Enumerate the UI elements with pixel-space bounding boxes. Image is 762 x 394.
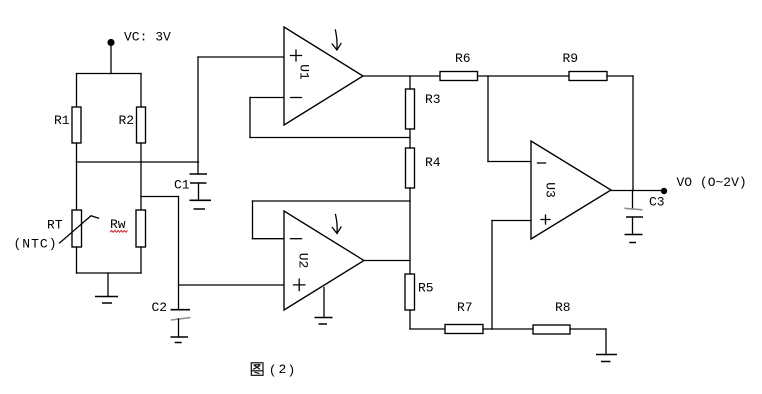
resistor R8: [533, 325, 570, 334]
wire feedback corner vertical: [632, 76, 634, 191]
ground bridge bars: [95, 297, 118, 304]
svg-text:C1: C1: [174, 178, 190, 193]
ground R8 bars: [596, 355, 617, 362]
resistor R9: [569, 72, 607, 81]
wire U3 minus junction vertical: [487, 76, 489, 162]
wire U2 minus input: [253, 238, 285, 240]
svg-text:R6: R6: [455, 51, 471, 66]
thermistor RT: [72, 210, 82, 247]
wire U1 feedback vertical: [249, 98, 251, 138]
capacitor C2 top plate: [171, 309, 191, 311]
wire U2 output: [364, 260, 410, 262]
wire bridge bottom: [77, 272, 142, 274]
U1 minus pin mark: [291, 97, 302, 99]
wire R4 to R5: [409, 188, 411, 274]
wire left branch lower: [76, 247, 78, 273]
capacitor C3 bottom plate: [626, 216, 643, 218]
ground R8 stub: [605, 329, 607, 355]
wire bridge mid node to C1: [77, 161, 199, 163]
wire R8 to ground: [570, 328, 606, 330]
wire right branch upper: [140, 74, 142, 108]
wire R3 top: [409, 76, 411, 89]
svg-text:R5: R5: [418, 281, 434, 296]
wire R5 to bottom: [409, 310, 411, 329]
ground C1 stub: [198, 183, 200, 200]
wire U3 plus input: [492, 220, 531, 222]
capacitor C1: [190, 174, 208, 183]
svg-text:R9: R9: [563, 51, 579, 66]
ground U2 bars: [315, 318, 333, 325]
resistor R2: [137, 107, 146, 143]
svg-text:C2: C2: [152, 300, 168, 315]
svg-text:U2: U2: [296, 253, 311, 269]
wire U1 feedback to R3 R4 node: [250, 137, 410, 139]
red squiggle under Rw: [110, 230, 128, 232]
svg-text:2: 2: [279, 362, 287, 377]
resistor R4: [406, 148, 415, 188]
wire U2 plus input: [179, 284, 286, 286]
wire VC stub: [110, 44, 112, 74]
arrow above U1: [332, 30, 341, 50]
wire R3 R4 link: [409, 129, 411, 148]
svg-text:RT: RT: [47, 218, 63, 233]
wire R9 to corner: [607, 75, 633, 77]
U3 minus pin mark: [538, 162, 546, 164]
ground C3 stub: [632, 217, 634, 235]
power terminal VC dot: [107, 39, 114, 46]
wire C1 vertical: [197, 57, 199, 174]
wire U3 plus vertical: [491, 221, 493, 330]
svg-text:(: (: [269, 363, 277, 378]
wire U1 output: [363, 75, 440, 77]
ground C2 bars: [171, 337, 189, 343]
wire bottom left segment: [410, 328, 445, 330]
ground C1 bars: [190, 200, 212, 209]
thermistor RT diagonal arrow: [60, 216, 99, 243]
wire R7 to R8: [483, 328, 533, 330]
arrow above U2: [332, 215, 341, 234]
resistor R6: [440, 72, 478, 81]
svg-text:R1: R1: [54, 113, 70, 128]
wire C2 vertical: [178, 197, 180, 310]
svg-text:VC: 3V: VC: 3V: [124, 30, 171, 45]
svg-text:VO (O~2V): VO (O~2V): [677, 175, 747, 190]
wire U1 plus input: [198, 56, 284, 58]
resistor R7: [445, 325, 483, 334]
wire U3 minus input: [488, 161, 531, 163]
wire U2 feedback vertical: [252, 201, 254, 239]
wire bridge top: [77, 73, 142, 75]
ground C2 stub: [178, 319, 180, 337]
svg-text:R2: R2: [119, 113, 135, 128]
ground U2 stub: [323, 288, 325, 318]
op-amp U3: [531, 141, 611, 239]
svg-text:R8: R8: [555, 300, 571, 315]
wire R2-Rw junction to C2: [141, 196, 179, 198]
capacitor C2 bottom plate gray: [171, 318, 191, 321]
wire left branch upper: [76, 74, 78, 108]
U2 minus pin mark: [291, 238, 302, 240]
potentiometer Rw: [136, 210, 146, 247]
wire U1 minus input: [250, 97, 284, 99]
U1 plus pin mark: [291, 50, 302, 61]
svg-text:C3: C3: [649, 195, 665, 210]
wire R6 to R9: [478, 75, 570, 77]
ground bridge stub: [107, 273, 109, 297]
U2 plus pin mark: [294, 279, 305, 290]
wire U3 output: [611, 190, 664, 192]
resistor R5: [405, 274, 415, 310]
op-amp U1: [284, 27, 363, 125]
U3 plus pin mark: [541, 215, 550, 224]
svg-text:R4: R4: [425, 155, 441, 170]
svg-text:(NTC): (NTC): [14, 237, 58, 252]
resistor R1: [72, 107, 81, 143]
output terminal V0 dot: [661, 188, 667, 194]
op-amp U2: [284, 211, 364, 310]
capacitor C3 top plate gray: [624, 208, 642, 210]
svg-text:U1: U1: [297, 64, 312, 80]
wire right branch middle: [140, 143, 142, 210]
svg-text:): ): [288, 363, 296, 378]
wire C3 stub: [632, 191, 634, 209]
wire left branch middle: [76, 143, 78, 210]
svg-text:R3: R3: [425, 92, 441, 107]
caption glyph tu box: [251, 363, 263, 376]
svg-text:U3: U3: [543, 182, 558, 198]
wire U2 feedback to R4 R5 node: [253, 200, 411, 202]
svg-text:R7: R7: [457, 300, 473, 315]
ground C3 bars: [625, 235, 643, 243]
wire right branch lower: [140, 247, 142, 273]
resistor R3: [406, 89, 415, 129]
